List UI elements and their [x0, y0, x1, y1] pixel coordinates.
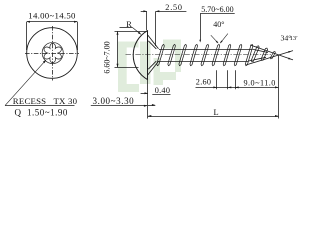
watermark glyph 2 — [154, 40, 182, 86]
dim 0.40 arrow right — [148, 105, 155, 107]
svg-text:0.40: 0.40 — [155, 86, 171, 95]
svg-text:RECESS TX 30: RECESS TX 30 — [13, 96, 78, 106]
dim 14.00~14.50 dimension line — [27, 21, 78, 23]
svg-text:R: R — [126, 20, 132, 29]
svg-text:40°: 40° — [213, 20, 224, 29]
dim 2.50 arrow left — [141, 11, 147, 13]
dim 0.40 arrow left — [141, 93, 148, 95]
under-head cone upper inner — [148, 41, 156, 49]
torx recess outer circle — [42, 42, 63, 63]
screw head flat face line — [147, 30, 149, 79]
thread helix ribbon and crest lines — [157, 44, 253, 65]
svg-text:13′: 13′ — [290, 35, 299, 42]
under-head cone lower outer — [148, 61, 159, 75]
dim 9.0~11.0 dimension line — [235, 87, 278, 89]
horizontal centerline — [25, 53, 79, 55]
dim 14.00~14.50 extension line right — [77, 22, 79, 50]
svg-text:2.50: 2.50 — [165, 3, 183, 12]
face extension line down — [147, 80, 149, 119]
label 5.70~6.00 underline — [200, 13, 235, 15]
svg-text:3.00~3.30: 3.00~3.30 — [93, 96, 135, 106]
svg-text:Q 1.50~1.90: Q 1.50~1.90 — [15, 108, 68, 118]
svg-text:2.60: 2.60 — [196, 78, 212, 87]
taper root bottom — [249, 57, 267, 61]
dim L tip extension line — [278, 56, 280, 119]
label 0.40 underline — [152, 94, 170, 96]
dim 2.60 extension right — [227, 70, 229, 89]
torx recess 6-lobe star — [44, 43, 61, 62]
vertical centerline — [52, 26, 54, 81]
dim 6.60~7.00 extension top — [115, 31, 147, 33]
dim 6.60~7.00 dimension line — [117, 31, 119, 67]
thread root line bottom — [158, 61, 249, 63]
screw tip taper bottom edge extended (angle line) — [246, 51, 293, 65]
dim 3.00~3.30 leader line — [91, 105, 148, 107]
recess leader underline — [5, 105, 75, 107]
dim L dimension line — [148, 116, 279, 118]
svg-text:5.70~6.00: 5.70~6.00 — [201, 5, 233, 14]
taper thread lines — [251, 46, 275, 62]
screw tip taper top edge extended (angle line) — [250, 45, 293, 60]
screw axis centerline — [126, 54, 273, 56]
tip angle arrowheads — [288, 58, 291, 60]
dim 14.00~14.50 extension line left — [26, 22, 28, 50]
svg-text:6.60~7.00: 6.60~7.00 — [103, 41, 112, 73]
dim 6.60~7.00 extension bottom — [115, 67, 139, 69]
dim 2.50 arrow right / underline — [156, 11, 187, 13]
watermark glyph 1 — [118, 42, 151, 93]
R leader — [120, 27, 133, 29]
dim 2.50 extension right — [155, 11, 157, 46]
40 deg angle arrows — [211, 35, 218, 43]
taper root top — [252, 49, 269, 53]
dim 2.60 dimension line — [196, 87, 239, 89]
screw head dome arc — [133, 30, 148, 79]
dim 2.50 extension left — [146, 11, 148, 30]
svg-text:14.00~14.50: 14.00~14.50 — [28, 11, 76, 21]
dim 2.60 extension left — [216, 70, 218, 89]
svg-text:L: L — [213, 108, 218, 117]
thread root line top — [159, 49, 252, 51]
under-head cone upper outer — [148, 35, 159, 49]
recess leader line — [5, 60, 46, 105]
head outline circle (top view) — [27, 28, 78, 79]
svg-text:9.0~11.0: 9.0~11.0 — [244, 78, 276, 87]
under-head cone lower inner — [148, 61, 156, 69]
dim 9.0~11.0 extension left — [235, 70, 237, 89]
label 5.70~6.00 drop line — [200, 13, 202, 40]
